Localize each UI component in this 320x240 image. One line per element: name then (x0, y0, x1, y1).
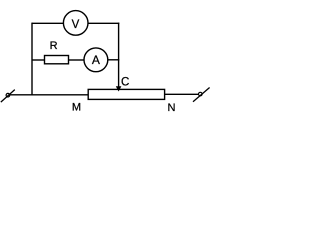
svg-text:V: V (72, 19, 80, 31)
terminal right slash (193, 88, 210, 102)
wire resistor row left (32, 59, 45, 61)
wire top-left horizontal (32, 22, 63, 24)
wire left vertical (31, 23, 33, 96)
terminal left circle (6, 93, 10, 97)
svg-text:A: A (92, 53, 100, 67)
terminal right circle (199, 92, 203, 96)
wire ammeter to right vertical (108, 59, 120, 61)
rheostat MN box (88, 89, 164, 99)
resistor R box (45, 56, 69, 64)
wire resistor to ammeter (69, 59, 85, 61)
svg-text:M: M (72, 102, 81, 114)
ammeter A1 circle (84, 48, 108, 72)
wire right vertical (118, 23, 120, 87)
wiper arrowhead C (116, 86, 122, 91)
svg-text:N: N (168, 102, 176, 114)
svg-text:R: R (50, 40, 58, 52)
wire top-right horizontal (88, 22, 119, 24)
voltmeter V1 circle (63, 11, 88, 36)
wire bottom right (165, 93, 199, 95)
svg-text:C: C (121, 77, 129, 89)
terminal left slash (1, 90, 15, 103)
wire bottom left (10, 94, 89, 96)
